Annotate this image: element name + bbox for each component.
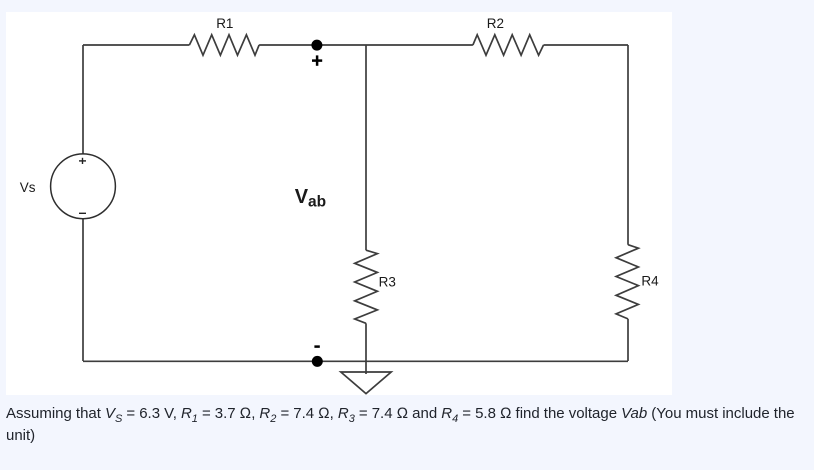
source - sign <box>79 212 86 214</box>
svg-text:Vs: Vs <box>20 180 36 195</box>
wire: middle vertical upper <box>365 45 367 250</box>
resistor R4 <box>616 245 638 319</box>
wire: left vertical lower (source bottom to bottom wire) <box>82 219 84 361</box>
wire: right vertical upper <box>627 45 629 245</box>
wire: top right segment <box>544 44 629 46</box>
svg-text:R1: R1 <box>216 16 233 31</box>
wire: right vertical lower <box>627 319 629 361</box>
wire: top middle segment <box>259 44 473 46</box>
node b (bottom dot) <box>312 356 323 367</box>
voltage source Vs circle <box>51 154 116 219</box>
svg-text:R3: R3 <box>379 274 396 289</box>
node a (top dot) <box>311 40 322 51</box>
svg-text:R2: R2 <box>487 16 504 31</box>
wire: left vertical upper (source top to top wire) <box>82 45 84 154</box>
polarity + at node a <box>312 55 322 65</box>
wire: top left segment <box>83 44 189 46</box>
question text <box>6 403 808 447</box>
resistor R2 <box>473 35 544 55</box>
resistor R1 <box>189 35 259 55</box>
wire: bottom horizontal <box>83 360 628 362</box>
resistor R3 <box>355 250 378 323</box>
source + sign <box>79 158 86 164</box>
polarity - at node b <box>314 345 319 348</box>
svg-text:Vab: Vab <box>295 186 326 211</box>
wire: middle vertical lower to ground <box>365 323 367 374</box>
white circuit canvas <box>6 12 672 395</box>
ground <box>341 372 391 394</box>
svg-text:R4: R4 <box>641 273 659 288</box>
